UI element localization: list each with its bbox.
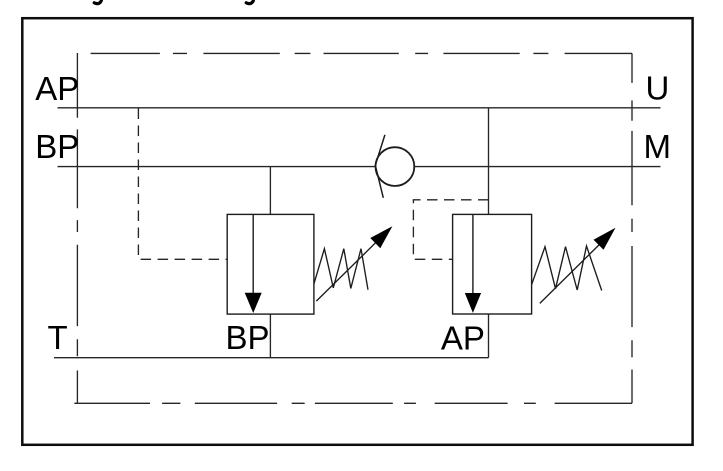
svg-text:AP: AP <box>35 70 79 107</box>
svg-text:T: T <box>48 319 68 356</box>
svg-text:AP: AP <box>441 319 485 356</box>
svg-text:BP: BP <box>226 319 270 356</box>
svg-text:M: M <box>644 128 672 165</box>
svg-text:U: U <box>646 70 670 107</box>
svg-text:BP: BP <box>35 128 79 165</box>
